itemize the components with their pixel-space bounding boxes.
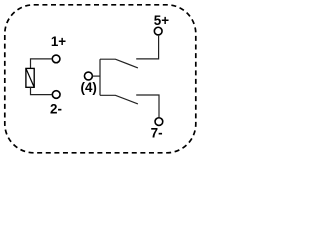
- relay outline (dashed case border): [5, 5, 196, 153]
- terminal 1: [52, 55, 60, 63]
- wire common to pole: [92, 75, 100, 77]
- upper fixed contact wire to terminal 5: [136, 36, 158, 59]
- pole riser wire: [99, 59, 101, 95]
- terminal 2: [52, 91, 60, 99]
- upper contact arm: [100, 59, 138, 68]
- svg-text:5+: 5+: [154, 13, 169, 28]
- svg-text:(4): (4): [81, 80, 97, 95]
- terminal 5: [154, 27, 162, 35]
- terminal 4 (common): [84, 72, 92, 80]
- terminal 7: [155, 118, 163, 126]
- wire coil top to terminal 1: [31, 59, 53, 69]
- coil K1: [26, 68, 34, 87]
- wire coil bottom to terminal 2: [31, 87, 52, 94]
- coil diagonal: [26, 68, 34, 87]
- svg-text:2-: 2-: [50, 102, 62, 117]
- lower fixed contact wire to terminal 7: [136, 95, 159, 117]
- lower contact arm: [100, 95, 138, 104]
- svg-text:1+: 1+: [51, 34, 66, 49]
- svg-text:7-: 7-: [151, 126, 163, 141]
